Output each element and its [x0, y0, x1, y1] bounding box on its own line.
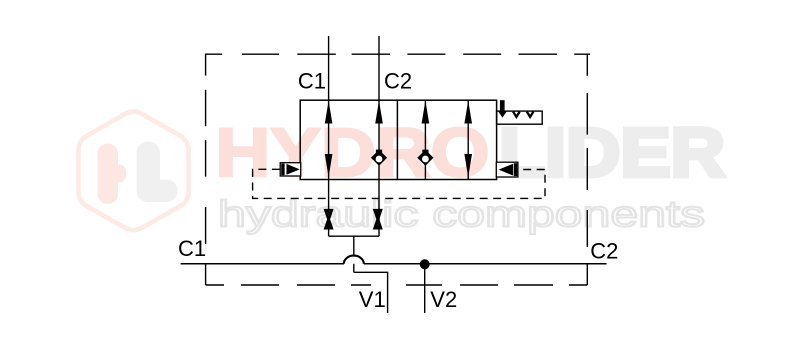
svg-text:V1: V1 — [359, 287, 386, 312]
svg-text:C2: C2 — [590, 239, 618, 264]
svg-text:C1: C1 — [298, 68, 326, 93]
svg-text:LIDER: LIDER — [499, 114, 725, 191]
svg-text:C1: C1 — [178, 236, 206, 261]
svg-text:V2: V2 — [430, 287, 457, 312]
svg-text:hydraulic components: hydraulic components — [218, 194, 705, 235]
svg-text:C2: C2 — [384, 68, 412, 93]
